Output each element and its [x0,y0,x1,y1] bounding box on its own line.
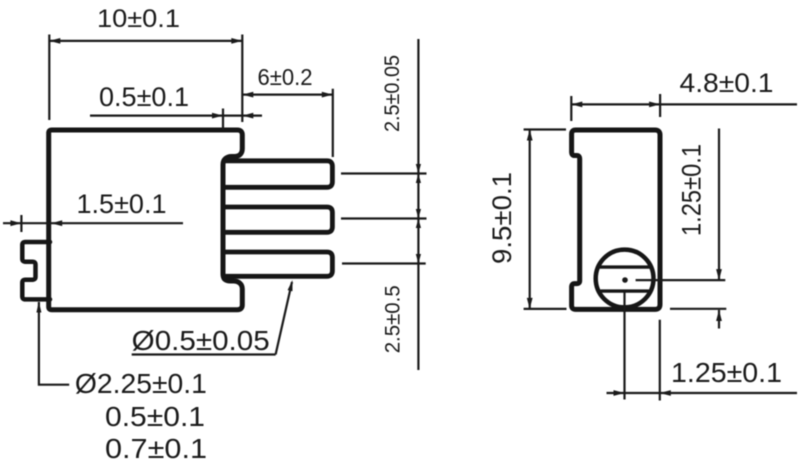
arrow 6 dim right [322,92,333,98]
arrow 9.5 top [527,130,533,141]
extension line top of 9.5 dim [524,128,566,130]
arrow 1.25 bottom right [660,390,671,396]
arrow 1.5 dim left [10,220,21,226]
body outline left view [49,130,243,310]
arrow chain up at pin1 [416,174,421,184]
extension line from screw center [636,279,726,281]
pin 2 [224,207,332,232]
svg-text:2.5±0.5: 2.5±0.5 [382,285,405,353]
extension line right of 6 dim [332,89,334,157]
arrow chain up at pin2 [416,219,421,229]
underline of pin diameter label [132,353,276,355]
dimension line 0.5 [90,114,262,116]
right edge extension down [659,320,661,401]
dimension line 1.25 right lower [718,310,720,329]
svg-text:0.5±0.1: 0.5±0.1 [105,401,205,432]
tick 0.5 dim [222,109,224,131]
svg-text:2.5±0.05: 2.5±0.05 [381,55,404,132]
arrow chain down at pin1 [416,164,421,174]
arrowheads, right view [527,102,722,396]
arrow 1.25 bottom left [614,390,625,396]
arrow 4.8 left [571,102,582,108]
arrow 1.25 right up [716,310,722,321]
dimension line 4.8 [571,103,797,105]
extension line right of 10 dim [241,35,243,123]
extension line bottom of 9.5 dim [524,308,567,310]
arrow leader pin diameter [288,279,295,291]
arrow chain down at pin3 [416,254,421,264]
extension line right of 4.8 dim [659,94,661,117]
slot centerline down [623,292,625,400]
labels, right view [487,68,782,388]
extension line pin 2 [341,217,427,219]
arrow leader rotor [36,302,41,313]
adjustment screw circle [596,250,654,308]
dimension line 1.5 [3,222,183,224]
arrow 0.5 dim left [212,113,223,119]
extension line left of 10 dim [48,35,50,121]
screw slot lower chord [601,289,648,292]
svg-text:4.8±0.1: 4.8±0.1 [680,68,774,98]
dimension line 10 [49,40,242,42]
extension line left of 4.8 dim [570,96,572,121]
extension line pin 3 [342,262,426,264]
screw slot upper chord [601,265,649,268]
arrowheads, left view [10,38,421,313]
rotor slot protrusion (left side) [22,242,50,299]
extension line pin 1 [341,172,427,174]
pin 3 [224,252,332,276]
svg-text:1.25±0.1: 1.25±0.1 [671,357,782,388]
arrow chain down at pin2 [416,209,421,219]
arrow 6 dim left [242,92,253,98]
dimension line 1.25 bottom [607,392,798,394]
svg-text:0.7±0.1: 0.7±0.1 [105,433,207,464]
arrow 4.8 right [649,102,660,108]
arrow 10 dim right [231,38,242,44]
svg-text:9.5±0.1: 9.5±0.1 [487,172,517,264]
arrow 1.5 dim right [51,220,62,226]
leader to rotor protrusion [39,302,69,385]
extension line bottom edge [670,308,726,310]
svg-text:1.5±0.1: 1.5±0.1 [77,189,167,219]
svg-text:1.25±0.1: 1.25±0.1 [677,144,707,236]
arrow 1.25 right down [716,269,722,280]
screw center dot [622,277,628,283]
svg-text:10±0.1: 10±0.1 [97,5,180,33]
labels, left view [75,5,405,464]
arrow 0.5 dim right [242,113,253,119]
tick 1.5 dim [20,215,22,232]
svg-text:6±0.2: 6±0.2 [258,64,313,90]
arrow 9.5 bottom [527,298,533,309]
svg-text:Ø0.5±0.05: Ø0.5±0.05 [132,325,270,356]
dimension line 9.5 [529,130,531,309]
body outline right view [572,130,660,309]
leader to pin 3 [276,282,292,355]
svg-text:0.5±0.1: 0.5±0.1 [99,82,189,112]
vertical chain dimension line (pin pitch) [417,39,419,370]
dimension line 6 [242,93,332,95]
pin 1 [224,161,332,188]
svg-text:Ø2.25±0.1: Ø2.25±0.1 [75,368,207,399]
dimension line 1.25 right upper [718,129,720,281]
arrow 10 dim left [49,38,60,44]
